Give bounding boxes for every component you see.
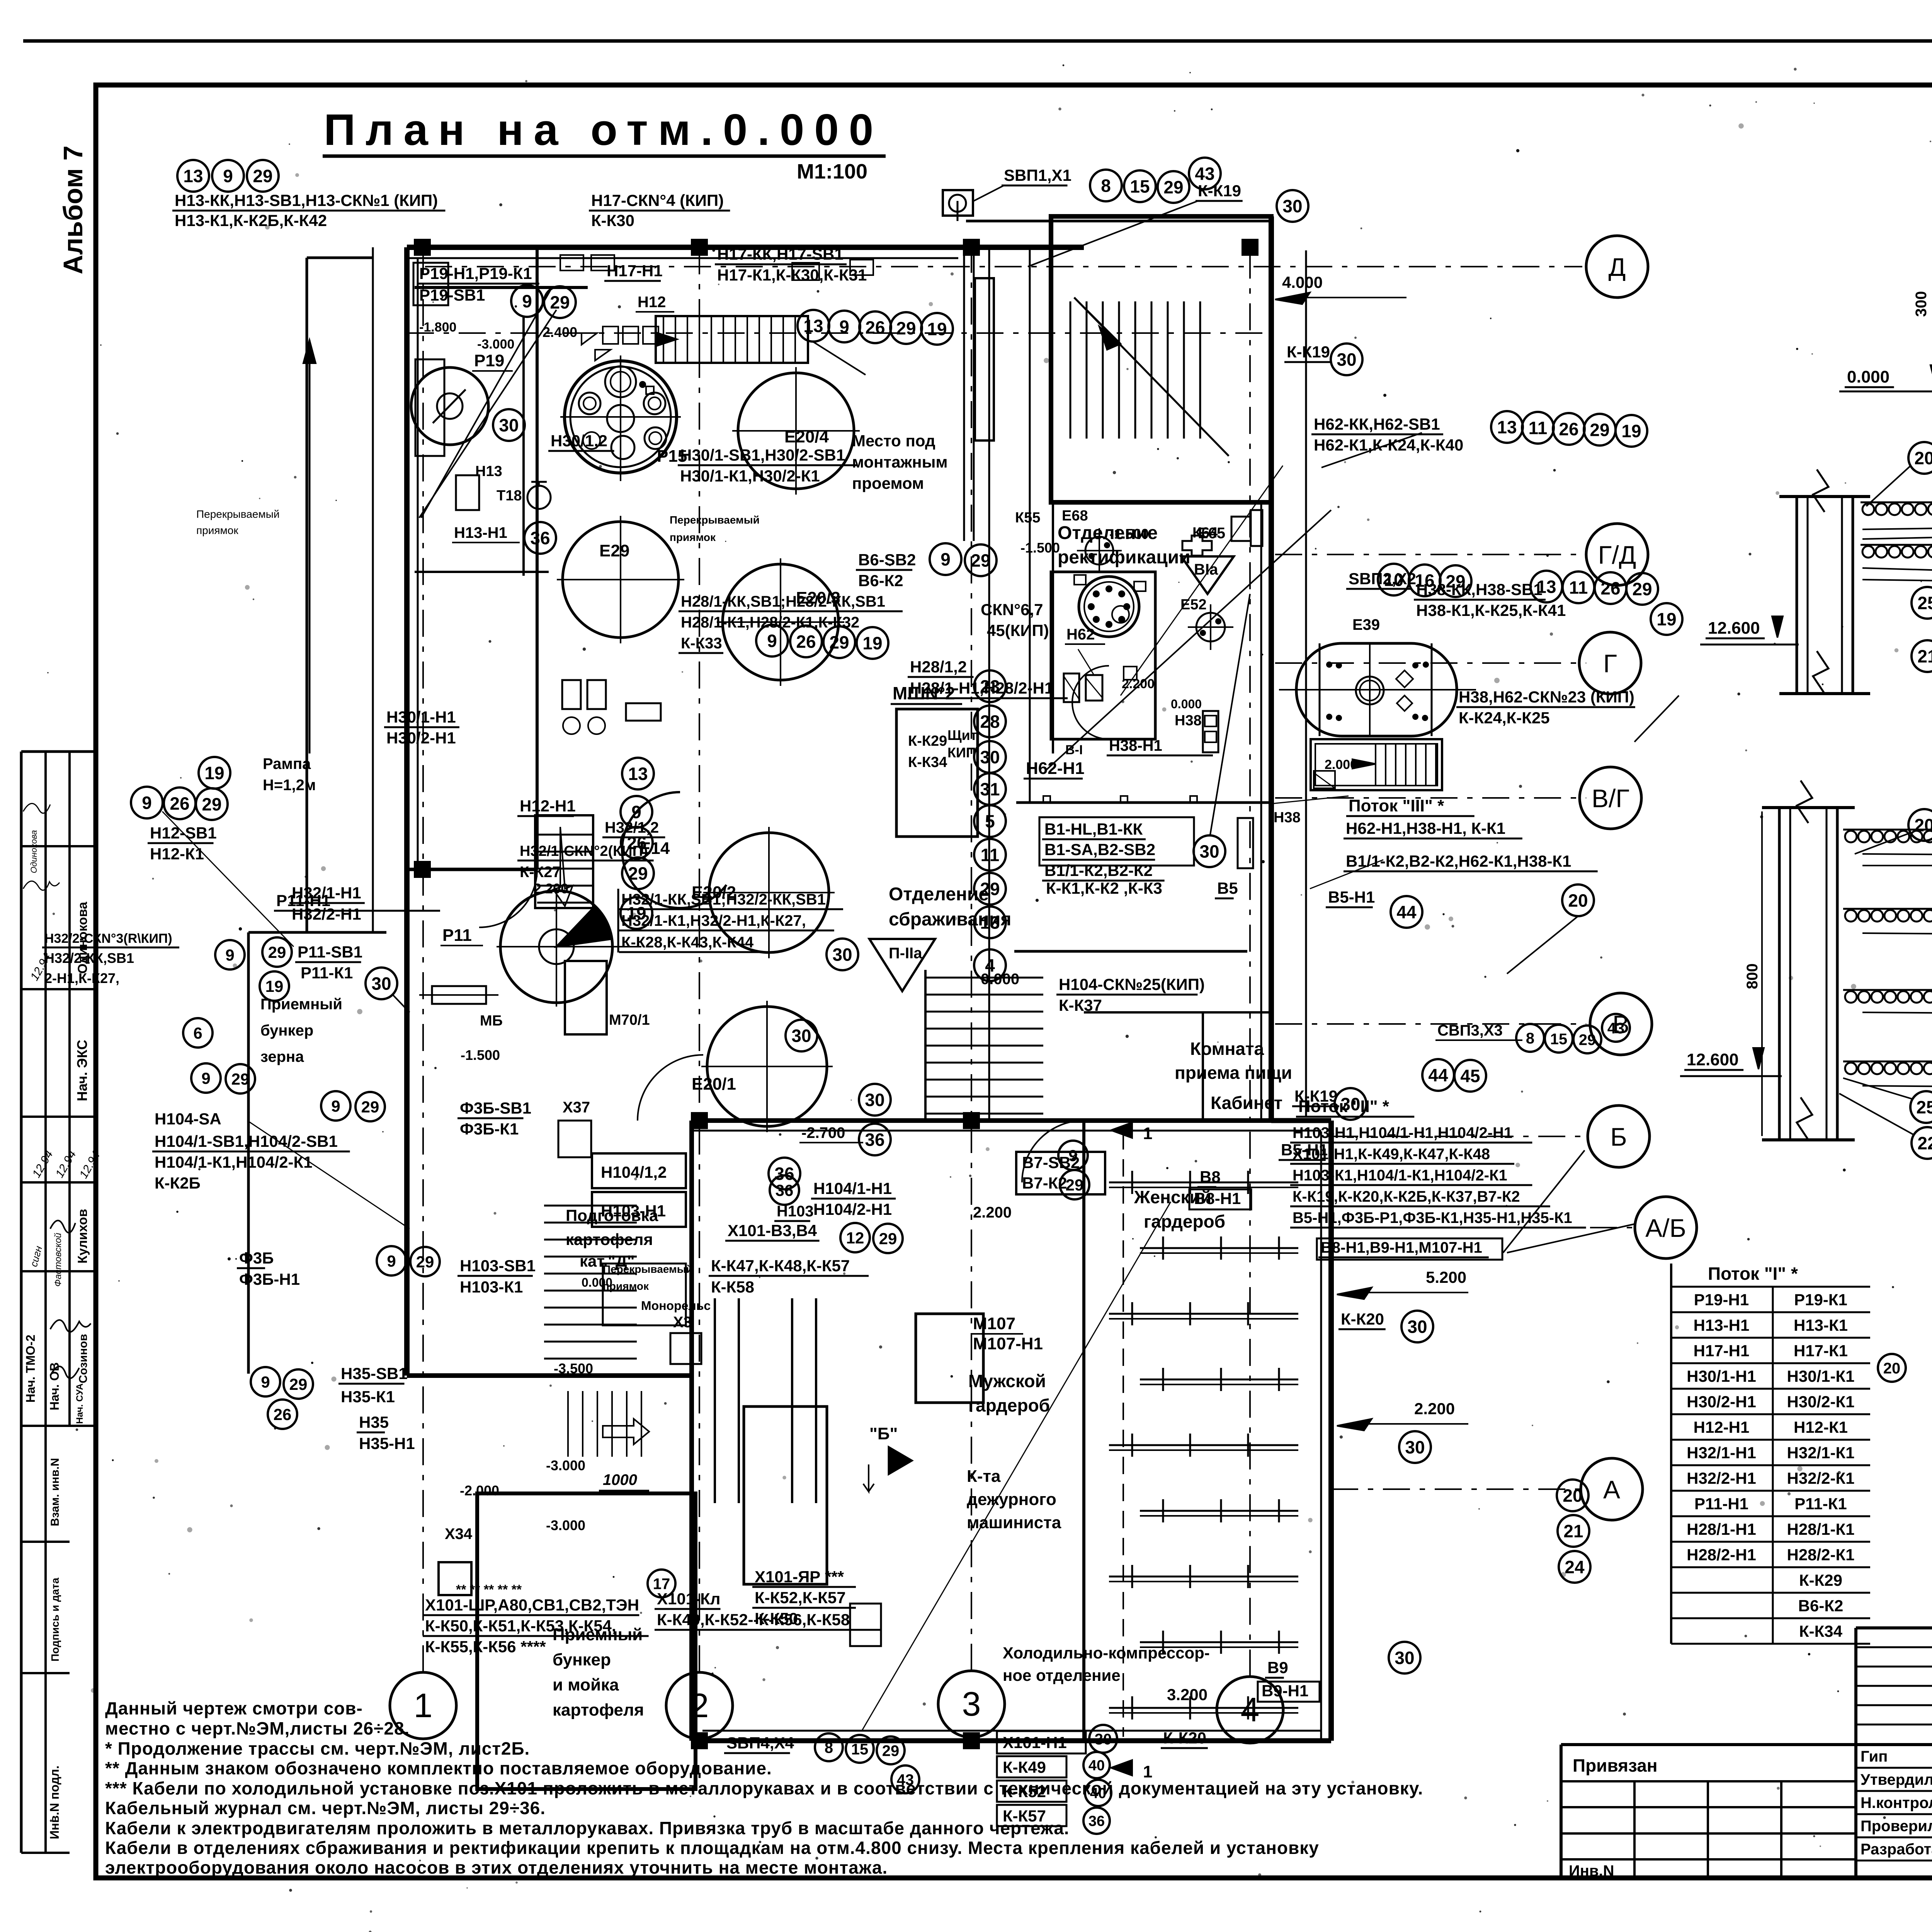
svg-text:Н13-Н1: Н13-Н1 [454, 524, 507, 541]
svg-text:К55: К55 [1015, 510, 1040, 526]
svg-text:2.200: 2.200 [534, 881, 568, 896]
svg-text:дежурного: дежурного [967, 1490, 1056, 1509]
svg-text:Н28/2-Н1: Н28/2-Н1 [1687, 1546, 1756, 1564]
svg-text:26: 26 [1600, 578, 1620, 599]
svg-text:Приемный: Приемный [260, 996, 342, 1013]
svg-text:43: 43 [1607, 1020, 1625, 1037]
svg-text:9: 9 [331, 1097, 340, 1115]
svg-text:В5: В5 [1217, 879, 1238, 897]
svg-text:К-К2Б: К-К2Б [155, 1174, 201, 1192]
svg-text:Перекрываемый: Перекрываемый [670, 514, 760, 526]
svg-text:2.200: 2.200 [973, 1204, 1012, 1221]
svg-text:Н32/2-СКN°3(R\КИП): Н32/2-СКN°3(R\КИП) [44, 931, 172, 946]
svg-text:Х37: Х37 [563, 1099, 590, 1116]
svg-text:В1-НL,В1-КК: В1-НL,В1-КК [1044, 820, 1143, 838]
svg-text:Н12-К1: Н12-К1 [1794, 1418, 1848, 1436]
svg-text:29: 29 [829, 633, 849, 653]
svg-text:Ф3Б-SВ1: Ф3Б-SВ1 [460, 1099, 531, 1117]
svg-text:Кулихов: Кулихов [75, 1209, 90, 1264]
svg-text:К-К52: К-К52 [1003, 1782, 1046, 1801]
svg-text:Р11: Р11 [442, 926, 472, 945]
svg-text:36: 36 [530, 528, 550, 548]
svg-text:Подпись и дата: Подпись и дата [49, 1578, 61, 1662]
svg-text:13: 13 [628, 764, 648, 784]
svg-text:Н28/1-К1: Н28/1-К1 [1787, 1520, 1854, 1538]
svg-text:Р11-К1: Р11-К1 [301, 964, 353, 982]
svg-text:26: 26 [796, 632, 816, 652]
svg-text:26: 26 [865, 318, 885, 338]
svg-text:М70/1: М70/1 [609, 1012, 650, 1028]
svg-text:-2.700: -2.700 [801, 1124, 845, 1141]
svg-text:2.200: 2.200 [1414, 1400, 1455, 1418]
svg-text:9: 9 [1068, 1146, 1077, 1165]
svg-text:Н35-SВ1: Н35-SВ1 [341, 1364, 408, 1383]
svg-text:30: 30 [499, 415, 519, 435]
svg-text:Инв.N: Инв.N [1569, 1862, 1614, 1879]
svg-text:В6-К2: В6-К2 [858, 571, 903, 590]
svg-text:19: 19 [927, 319, 947, 339]
svg-text:13: 13 [1497, 417, 1517, 437]
svg-text:8: 8 [825, 1739, 833, 1756]
svg-text:Н38-К1,К-К25,К-К41: Н38-К1,К-К25,К-К41 [1416, 601, 1566, 619]
svg-text:СВП3,Х3: СВП3,Х3 [1437, 1022, 1503, 1039]
svg-text:Нач. ТМО-2: Нач. ТМО-2 [24, 1335, 37, 1403]
svg-text:SВП4,Х4: SВП4,Х4 [726, 1734, 794, 1752]
svg-text:КИП: КИП [947, 745, 976, 760]
svg-text:Б: Б [1610, 1122, 1627, 1151]
svg-text:19: 19 [626, 903, 646, 923]
svg-text:Н30/2-Н1: Н30/2-Н1 [1687, 1393, 1756, 1411]
svg-text:Созинов: Созинов [77, 1334, 90, 1383]
svg-text:ное отделение: ное отделение [1003, 1666, 1121, 1684]
svg-text:Н104-SА: Н104-SА [155, 1110, 221, 1128]
svg-text:Н30/1-К1: Н30/1-К1 [1787, 1367, 1854, 1385]
svg-text:10: 10 [1384, 570, 1403, 590]
svg-text:Р11-Н1: Р11-Н1 [276, 891, 330, 910]
svg-text:В8: В8 [1200, 1168, 1221, 1186]
svg-text:Н12-Н1: Н12-Н1 [520, 797, 576, 815]
svg-text:20: 20 [1568, 891, 1588, 911]
svg-text:9: 9 [839, 317, 849, 337]
svg-text:Н104/1-К1,Н104/2-К1: Н104/1-К1,Н104/2-К1 [155, 1153, 313, 1171]
svg-text:-2.000: -2.000 [460, 1483, 499, 1498]
svg-text:25: 25 [1917, 593, 1932, 613]
svg-text:Н17-Н1: Н17-Н1 [1694, 1342, 1750, 1360]
svg-text:30: 30 [980, 747, 1000, 767]
svg-text:Н30/1-SВ1,Н30/2-SВ1: Н30/1-SВ1,Н30/2-SВ1 [680, 446, 845, 464]
svg-text:монтажным: монтажным [852, 453, 948, 471]
svg-text:20: 20 [1883, 1360, 1901, 1377]
svg-text:картофеля: картофеля [566, 1230, 653, 1248]
svg-text:А/Б: А/Б [1645, 1214, 1686, 1242]
svg-text:Р11-SВ1: Р11-SВ1 [298, 943, 362, 961]
svg-text:1: 1 [1143, 1124, 1152, 1143]
svg-text:9: 9 [201, 1069, 210, 1087]
svg-text:-3.000: -3.000 [546, 1458, 585, 1473]
svg-text:45(КИП): 45(КИП) [987, 621, 1049, 639]
svg-text:Х3: Х3 [673, 1314, 692, 1331]
svg-text:Н30/2-Н1: Н30/2-Н1 [386, 729, 456, 747]
svg-text:Н32/2-КК,SВ1: Н32/2-КК,SВ1 [44, 950, 134, 966]
svg-text:9: 9 [522, 291, 532, 311]
svg-text:гардероб: гардероб [1144, 1211, 1225, 1231]
svg-text:4: 4 [985, 956, 995, 976]
svg-text:Р19-Н1,Р19-К1: Р19-Н1,Р19-К1 [419, 264, 532, 282]
svg-text:Н32/2-К1: Н32/2-К1 [1787, 1469, 1854, 1487]
svg-text:Г/Д: Г/Д [1598, 541, 1636, 569]
svg-text:8: 8 [1526, 1030, 1534, 1047]
svg-text:Проверил: Проверил [1861, 1818, 1932, 1835]
svg-text:29: 29 [253, 166, 272, 186]
svg-text:29: 29 [1446, 571, 1465, 592]
svg-text:Н12: Н12 [638, 294, 666, 311]
svg-text:30: 30 [1407, 1317, 1427, 1337]
svg-text:Н62: Н62 [1066, 626, 1095, 643]
svg-text:Нач. ЭКС: Нач. ЭКС [74, 1040, 90, 1101]
svg-text:и мойка: и мойка [553, 1675, 619, 1694]
svg-text:9: 9 [223, 166, 233, 186]
svg-text:Гип: Гип [1861, 1748, 1888, 1765]
svg-text:Н103-К1,Н104/1-К1,Н104/2-К1: Н103-К1,Н104/1-К1,Н104/2-К1 [1293, 1167, 1507, 1184]
svg-text:19: 19 [1656, 609, 1676, 629]
svg-text:приямок: приямок [670, 531, 716, 543]
svg-text:36: 36 [865, 1130, 884, 1150]
svg-text:Альбом 7: Альбом 7 [58, 146, 88, 274]
svg-text:Перекрываемый: Перекрываемый [603, 1263, 693, 1275]
svg-text:К-К34: К-К34 [908, 754, 947, 770]
svg-text:В/Г: В/Г [1592, 784, 1629, 813]
svg-text:Н104/2-Н1: Н104/2-Н1 [813, 1200, 892, 1218]
svg-text:9: 9 [225, 946, 234, 964]
svg-text:20: 20 [1914, 448, 1932, 468]
svg-text:Н13-К1: Н13-К1 [1794, 1316, 1848, 1334]
svg-text:29: 29 [971, 551, 990, 571]
svg-text:К-К29: К-К29 [908, 733, 947, 749]
svg-text:15: 15 [1550, 1031, 1568, 1048]
svg-text:Х101-ЯР ***: Х101-ЯР *** [755, 1568, 844, 1586]
svg-text:30: 30 [1095, 1731, 1112, 1748]
svg-text:Ф3Б: Ф3Б [239, 1249, 274, 1267]
svg-text:-1.500: -1.500 [1109, 526, 1149, 542]
svg-text:В8-Н1: В8-Н1 [1194, 1189, 1241, 1207]
svg-text:К-К50: К-К50 [755, 1609, 798, 1628]
svg-text:30: 30 [1395, 1648, 1414, 1668]
svg-text:К-К1,К-К2 ,К-К3: К-К1,К-К2 ,К-К3 [1046, 879, 1162, 897]
svg-text:44: 44 [1396, 902, 1417, 922]
svg-text:Разработал: Разработал [1861, 1841, 1932, 1858]
svg-text:приямок: приямок [196, 524, 238, 536]
svg-text:В1-SА,В2-SВ2: В1-SА,В2-SВ2 [1044, 840, 1155, 859]
svg-text:К-К55,К-К56 ****: К-К55,К-К56 **** [425, 1638, 546, 1656]
svg-text:В9-Н1: В9-Н1 [1262, 1682, 1308, 1700]
svg-text:** ** ** ** **: ** ** ** ** ** [456, 1582, 522, 1597]
svg-text:Д: Д [1609, 253, 1626, 281]
svg-text:Н38: Н38 [1175, 713, 1202, 729]
svg-text:29: 29 [361, 1098, 379, 1116]
svg-text:Н13: Н13 [475, 463, 502, 480]
svg-text:44: 44 [1428, 1065, 1448, 1085]
svg-text:Н28/1-КК,SВ1;Н28/2-КК,SВ1: Н28/1-КК,SВ1;Н28/2-КК,SВ1 [681, 593, 885, 610]
svg-text:Н30/1-Н1: Н30/1-Н1 [386, 708, 456, 726]
svg-text:Поток "I" *: Поток "I" * [1708, 1264, 1798, 1284]
svg-text:30: 30 [1337, 350, 1356, 370]
svg-text:Холодильно-компрессор-: Холодильно-компрессор- [1003, 1644, 1210, 1662]
svg-text:К-К24,К-К25: К-К24,К-К25 [1459, 709, 1550, 727]
svg-text:Н103-Н1: Н103-Н1 [601, 1202, 666, 1220]
svg-text:К-К47,К-К48,К-К57: К-К47,К-К48,К-К57 [711, 1257, 850, 1275]
svg-text:29: 29 [268, 943, 286, 961]
svg-text:13: 13 [183, 166, 203, 186]
svg-text:300: 300 [1913, 291, 1930, 317]
svg-text:В8-Н1,В9-Н1,М107-Н1: В8-Н1,В9-Н1,М107-Н1 [1321, 1239, 1482, 1256]
svg-text:"Б": "Б" [869, 1424, 898, 1443]
svg-text:К-К27: К-К27 [520, 864, 561, 881]
svg-text:11: 11 [981, 845, 1000, 865]
svg-text:40: 40 [1090, 1786, 1106, 1802]
svg-text:* Продолжение трассы см. черт.: * Продолжение трассы см. черт.№ЭМ, лист2… [105, 1738, 530, 1759]
svg-text:22: 22 [1917, 1133, 1932, 1153]
svg-text:12.600: 12.600 [1708, 619, 1760, 638]
svg-text:Н=1,2м: Н=1,2м [263, 777, 316, 794]
svg-text:Н32/1-КК,SВ1;Н32/2-КК,SВ1: Н32/1-КК,SВ1;Н32/2-КК,SВ1 [621, 891, 826, 908]
svg-text:Кабинет: Кабинет [1211, 1093, 1282, 1113]
svg-text:11: 11 [1569, 578, 1588, 598]
svg-text:М1:100: М1:100 [797, 160, 867, 183]
svg-text:Р19-SВ1: Р19-SВ1 [419, 286, 485, 304]
svg-text:Н62-КК,Н62-SВ1: Н62-КК,Н62-SВ1 [1314, 415, 1440, 433]
svg-text:Н30/1-К1,Н30/2-К1: Н30/1-К1,Н30/2-К1 [680, 467, 820, 485]
svg-text:Н103-SВ1: Н103-SВ1 [460, 1257, 536, 1275]
svg-text:Н17-Н1: Н17-Н1 [607, 262, 663, 280]
svg-text:М107-Н1: М107-Н1 [973, 1334, 1043, 1353]
svg-text:29: 29 [882, 1742, 900, 1759]
svg-text:26: 26 [627, 833, 646, 853]
svg-text:К-К49,К-К52--К-К56,К-К58: К-К49,К-К52--К-К56,К-К58 [657, 1611, 850, 1629]
svg-text:Комната: Комната [1190, 1039, 1264, 1059]
svg-text:2.400: 2.400 [543, 324, 577, 340]
svg-text:К-К20: К-К20 [1341, 1310, 1384, 1328]
svg-text:12.600: 12.600 [1687, 1050, 1739, 1069]
svg-text:5.200: 5.200 [1426, 1268, 1466, 1286]
svg-text:31: 31 [980, 779, 1000, 799]
svg-text:Ф3Б-К1: Ф3Б-К1 [460, 1120, 519, 1138]
svg-text:3: 3 [962, 1685, 981, 1723]
svg-text:Щит: Щит [947, 727, 977, 743]
svg-text:Н35-К1: Н35-К1 [341, 1388, 395, 1406]
svg-text:Нач. СУА: Нач. СУА [75, 1383, 85, 1424]
svg-text:Н35-Н1: Н35-Н1 [359, 1434, 415, 1452]
svg-text:2.200: 2.200 [1122, 677, 1155, 691]
svg-text:Н38: Н38 [1274, 810, 1301, 826]
svg-text:электрооборудования около насо: электрооборудования около насосов в этих… [105, 1857, 888, 1878]
svg-text:40: 40 [1088, 1758, 1105, 1774]
svg-text:36: 36 [774, 1164, 794, 1184]
svg-text:местно с черт.№ЭМ,листы 26÷28.: местно с черт.№ЭМ,листы 26÷28. [105, 1718, 410, 1738]
svg-text:1000: 1000 [603, 1471, 637, 1488]
svg-text:23: 23 [980, 677, 1000, 697]
svg-text:29: 29 [1632, 579, 1652, 599]
svg-text:Н13-К1,К-К2Б,К-К42: Н13-К1,К-К2Б,К-К42 [175, 211, 327, 230]
svg-text:SВП2,Х2: SВП2,Х2 [1349, 570, 1416, 588]
svg-text:Инв.N подл.: Инв.N подл. [48, 1765, 61, 1839]
svg-text:зерна: зерна [260, 1048, 304, 1065]
svg-text:ректификации: ректификации [1058, 547, 1190, 568]
svg-text:Х101-Н1: Х101-Н1 [1003, 1733, 1067, 1752]
svg-text:Кабели к электродвигателям про: Кабели к электродвигателям проложить в м… [105, 1818, 1070, 1838]
svg-text:29: 29 [1579, 1031, 1596, 1048]
svg-text:30: 30 [1199, 842, 1219, 862]
svg-text:Н28/2-К1: Н28/2-К1 [1787, 1546, 1854, 1564]
svg-text:Н12-К1: Н12-К1 [150, 845, 204, 863]
svg-text:24: 24 [1565, 1557, 1585, 1577]
svg-text:25: 25 [1916, 1097, 1932, 1117]
svg-text:1: 1 [1143, 1762, 1152, 1781]
svg-text:Н30/1-Н1: Н30/1-Н1 [1687, 1367, 1756, 1385]
svg-text:Фастовской: Фастовской [53, 1233, 63, 1287]
svg-text:К-К37: К-К37 [1059, 996, 1102, 1014]
svg-text:15: 15 [851, 1741, 869, 1758]
svg-text:-3.500: -3.500 [554, 1361, 593, 1376]
svg-text:картофеля: картофеля [553, 1701, 644, 1719]
svg-text:28: 28 [980, 712, 1000, 732]
svg-text:** Данным знаком обозначено ко: ** Данным знаком обозначено комплектно п… [105, 1758, 772, 1778]
svg-text:К-К20: К-К20 [1163, 1729, 1206, 1747]
svg-text:30: 30 [865, 1090, 884, 1110]
svg-text:К-К58: К-К58 [711, 1278, 754, 1296]
svg-text:А: А [1603, 1475, 1620, 1504]
svg-text:8: 8 [1101, 176, 1111, 196]
svg-text:29: 29 [1590, 420, 1609, 440]
svg-text:9: 9 [387, 1252, 396, 1270]
svg-text:Одинокова: Одинокова [29, 830, 39, 873]
svg-text:29: 29 [896, 318, 916, 338]
svg-text:ВIа: ВIа [1194, 561, 1218, 578]
svg-text:Взам. инв.N: Взам. инв.N [49, 1458, 61, 1526]
svg-text:29: 29 [231, 1070, 250, 1088]
svg-text:30: 30 [1282, 196, 1302, 216]
svg-text:К-К19,К-К20,К-К2Б,К-К37,В7-К2: К-К19,К-К20,К-К2Б,К-К37,В7-К2 [1293, 1188, 1520, 1205]
svg-text:Перекрываемый: Перекрываемый [196, 508, 280, 520]
svg-text:Н103-К1: Н103-К1 [460, 1278, 523, 1296]
svg-text:-1.500: -1.500 [461, 1047, 500, 1063]
svg-text:26: 26 [1559, 419, 1578, 439]
svg-text:Монорельс: Монорельс [641, 1299, 711, 1313]
svg-text:Н104/1,2: Н104/1,2 [601, 1163, 667, 1181]
svg-text:-1.500: -1.500 [1020, 540, 1060, 556]
svg-text:9: 9 [631, 802, 641, 822]
svg-text:Н32/1-К1: Н32/1-К1 [1787, 1444, 1854, 1462]
svg-text:бункер: бункер [260, 1022, 313, 1039]
svg-text:К-К19: К-К19 [1198, 182, 1241, 200]
svg-text:30: 30 [791, 1026, 811, 1046]
svg-text:Х101-ШР,А80,СВ1,СВ2,ТЭН: Х101-ШР,А80,СВ1,СВ2,ТЭН [425, 1596, 639, 1614]
svg-text:Р19-Н1: Р19-Н1 [1694, 1291, 1749, 1309]
svg-text:43: 43 [1195, 164, 1214, 184]
svg-text:SВП1,Х1: SВП1,Х1 [1004, 166, 1071, 184]
svg-text:К-К19: К-К19 [1294, 1087, 1338, 1105]
svg-text:9: 9 [261, 1373, 270, 1391]
svg-text:В9: В9 [1267, 1658, 1288, 1677]
svg-text:Кабели в отделениях сбраживани: Кабели в отделениях сбраживания и ректиф… [105, 1838, 1319, 1858]
svg-text:Место под: Место под [852, 432, 935, 450]
svg-text:К-К29: К-К29 [1799, 1571, 1842, 1589]
svg-text:2-Н1,К-К27,: 2-Н1,К-К27, [44, 970, 119, 986]
svg-text:Н104-СК№25(КИП): Н104-СК№25(КИП) [1059, 975, 1205, 993]
svg-text:29: 29 [550, 293, 570, 313]
svg-text:В6-К2: В6-К2 [1798, 1597, 1844, 1615]
svg-text:800: 800 [1744, 963, 1761, 989]
svg-text:9: 9 [940, 549, 951, 570]
svg-text:К-К34: К-К34 [1799, 1622, 1843, 1640]
svg-text:Р11-Н1: Р11-Н1 [1694, 1495, 1748, 1513]
svg-text:Е65: Е65 [1198, 525, 1225, 542]
svg-text:Н.контроль: Н.контроль [1861, 1794, 1932, 1811]
svg-text:29: 29 [628, 864, 648, 884]
svg-text:Рампа: Рампа [263, 755, 311, 772]
svg-text:проемом: проемом [852, 474, 924, 492]
svg-text:9: 9 [142, 793, 152, 813]
svg-text:Е20/1: Е20/1 [692, 1075, 736, 1094]
svg-text:Е68: Е68 [1062, 508, 1088, 524]
svg-text:-3.000: -3.000 [546, 1517, 585, 1533]
svg-text:21: 21 [1917, 646, 1932, 667]
svg-text:К-К50,К-К51,К-К53,К-К54,: К-К50,К-К51,К-К53,К-К54, [425, 1617, 616, 1635]
svg-text:4.000: 4.000 [1282, 273, 1323, 291]
svg-text:29: 29 [879, 1230, 897, 1248]
svg-text:Т18: Т18 [497, 488, 522, 504]
svg-text:Р19-К1: Р19-К1 [1794, 1291, 1847, 1309]
svg-text:6: 6 [193, 1024, 202, 1042]
svg-text:17: 17 [653, 1575, 670, 1592]
svg-text:СКN°6,7: СКN°6,7 [981, 600, 1043, 619]
svg-text:приема пищи: приема пищи [1175, 1063, 1292, 1083]
svg-text:Н17-К1: Н17-К1 [1794, 1342, 1848, 1360]
svg-text:29: 29 [980, 879, 1000, 899]
svg-text:Привязан: Привязан [1573, 1755, 1658, 1776]
svg-text:Н12-Н1: Н12-Н1 [1694, 1418, 1750, 1436]
svg-text:0.000: 0.000 [1171, 697, 1202, 711]
svg-text:Н32/2-Н1: Н32/2-Н1 [1687, 1469, 1756, 1487]
svg-text:Н28/1-Н1: Н28/1-Н1 [1687, 1520, 1756, 1538]
svg-text:13: 13 [803, 316, 823, 336]
svg-text:Г: Г [1603, 649, 1617, 678]
svg-text:Н38-КК,Н38-SВ1: Н38-КК,Н38-SВ1 [1416, 580, 1543, 599]
svg-text:Х101-В3,В4: Х101-В3,В4 [728, 1221, 817, 1240]
svg-text:Мужской: Мужской [968, 1371, 1046, 1391]
svg-text:Поток "III" *: Поток "III" * [1349, 796, 1444, 815]
svg-text:К-К30: К-К30 [591, 211, 634, 230]
svg-text:21: 21 [1563, 1521, 1583, 1541]
svg-text:Р19: Р19 [474, 351, 504, 370]
svg-text:30: 30 [371, 974, 391, 994]
svg-text:Н30/2-К1: Н30/2-К1 [1787, 1393, 1854, 1411]
svg-text:20: 20 [1914, 815, 1932, 835]
svg-text:Утвердил: Утвердил [1861, 1771, 1932, 1788]
svg-text:Н17-К1,К-К30,К-К31: Н17-К1,К-К30,К-К31 [717, 266, 867, 284]
svg-text:В1/1-К2,В2-К2: В1/1-К2,В2-К2 [1044, 861, 1153, 879]
svg-text:30: 30 [1405, 1437, 1425, 1458]
svg-text:К-К33: К-К33 [681, 635, 722, 652]
svg-text:Кабельный журнал см. черт.№ЭМ,: Кабельный журнал см. черт.№ЭМ, листы 29÷… [105, 1798, 546, 1818]
svg-text:Е39: Е39 [1352, 616, 1380, 633]
svg-text:Н62-Н1,Н38-Н1, К-К1: Н62-Н1,Н38-Н1, К-К1 [1346, 819, 1505, 837]
svg-text:19: 19 [265, 977, 284, 995]
svg-text:бункер: бункер [553, 1650, 611, 1669]
svg-text:-3.000: -3.000 [477, 337, 514, 352]
svg-text:Данный чертеж смотри сов-: Данный чертеж смотри сов- [105, 1698, 363, 1718]
svg-text:11: 11 [1529, 418, 1548, 438]
svg-text:В6-SВ2: В6-SВ2 [858, 551, 916, 569]
